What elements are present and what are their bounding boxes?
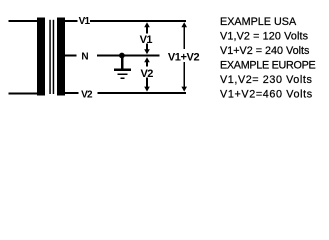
- wire: primary bottom lead: [9, 93, 38, 95]
- svg-text:V1: V1: [79, 16, 91, 27]
- wire: primary top lead: [9, 20, 38, 22]
- wire: V2 rail from label to right end: [97, 92, 186, 94]
- transformer T1 primary winding bar: [37, 17, 45, 95]
- svg-text:V1+V2: V1+V2: [168, 51, 200, 63]
- dimension arrow V1+V2 (top, up arrowhead): [181, 22, 187, 49]
- wire: V1 rail from label to right end: [90, 20, 186, 22]
- transformer T1 core line 2: [53, 20, 55, 94]
- ground symbol: [114, 69, 131, 80]
- svg-text:V1: V1: [140, 34, 153, 46]
- svg-text:N: N: [81, 51, 88, 62]
- wire: V2 rail stub from secondary to label: [65, 92, 79, 94]
- wire: N rail stub from secondary to label: [65, 55, 77, 57]
- dimension arrow V1 (top, up arrowhead): [144, 22, 150, 33]
- transformer T1 secondary winding bar: [57, 17, 65, 95]
- wire: N rail from label past junction to right end: [97, 55, 159, 57]
- transformer T1 core line 1: [49, 20, 51, 94]
- dimension arrow V1+V2 (bottom, down arrowhead): [181, 62, 187, 92]
- svg-text:V2: V2: [81, 89, 93, 100]
- svg-text:V1,V2= 230 Volts: V1,V2= 230 Volts: [220, 74, 312, 86]
- dimension arrow V1 (bottom, down arrowhead): [144, 44, 150, 55]
- svg-text:EXAMPLE USA: EXAMPLE USA: [220, 16, 297, 28]
- dimension arrow V2 (top, up arrowhead): [144, 57, 150, 66]
- junction dot on N rail: [119, 53, 125, 59]
- wire: V1 rail stub from secondary to label: [65, 20, 78, 22]
- note text: example voltages: [220, 16, 316, 100]
- svg-text:V1,V2 = 120 Volts: V1,V2 = 120 Volts: [220, 31, 309, 43]
- dimension arrow V2 (bottom, down arrowhead): [144, 78, 150, 92]
- wire: ground stem: [121, 57, 123, 69]
- svg-text:V1+V2 = 240 Volts: V1+V2 = 240 Volts: [220, 45, 310, 57]
- svg-text:EXAMPLE EUROPE: EXAMPLE EUROPE: [220, 59, 316, 71]
- svg-text:V1+V2=460 Volts: V1+V2=460 Volts: [220, 88, 313, 100]
